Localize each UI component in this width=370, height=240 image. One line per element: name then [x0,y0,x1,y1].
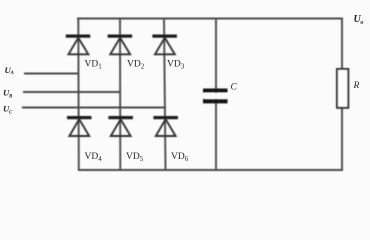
label C [231,83,238,93]
diode VD3 [152,35,177,55]
wire input U_A [24,73,79,75]
diode VD4 [67,116,92,136]
label VD5 [126,152,144,163]
label VD3 [167,60,185,71]
label U_C [3,104,13,116]
label U_B [3,88,13,100]
label R [353,81,360,91]
wire phase A vertical [77,18,80,172]
resistor R body [337,69,348,108]
capacitor C plates [203,89,228,104]
label U_o [354,14,364,26]
label VD6 [171,152,189,163]
diode VD1 [66,35,91,55]
diode VD2 [108,35,133,55]
wire input U_C [22,107,166,109]
svg-text:R: R [353,81,360,91]
wire bottom DC bus [78,169,343,171]
wire load branch [341,18,343,172]
label VD4 [85,152,103,163]
wire phase C vertical [164,18,166,172]
label VD1 [85,60,103,71]
label U_A [5,65,15,76]
wire top DC bus [77,18,343,20]
label VD2 [127,60,145,71]
diode VD6 [153,116,178,136]
svg-text:C: C [231,83,238,93]
wire capacitor branch [215,18,217,172]
wire phase B vertical [119,18,121,172]
diode VD5 [108,116,132,136]
wire input U_B [23,91,121,93]
